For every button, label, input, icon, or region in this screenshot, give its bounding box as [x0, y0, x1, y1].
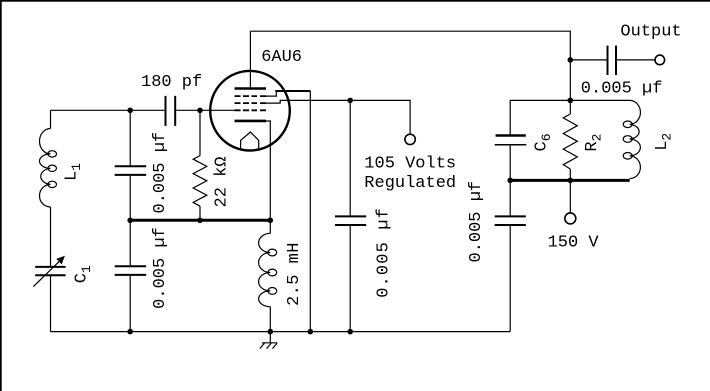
tube cathode bar [235, 120, 267, 123]
resistor bottom lead [199, 206, 201, 220]
node junction output tap [568, 57, 574, 63]
wire bottom rail [51, 331, 511, 333]
resistor R2 lead [569, 100, 571, 114]
svg-text:180 pf: 180 pf [141, 73, 202, 92]
node junction [507, 178, 513, 184]
resistor 22 kOhm [193, 156, 207, 207]
node junction [347, 329, 353, 335]
wire lower cap x=510 [509, 180, 511, 215]
arrow of C1 [33, 259, 61, 286]
inductor 2.5 mH [259, 233, 271, 306]
wire plate top rail [250, 31, 570, 60]
svg-text:2.5 mH: 2.5 mH [285, 242, 304, 306]
wire suppressor net (row1) [266, 91, 276, 96]
svg-text:105 Volts: 105 Volts [364, 155, 456, 174]
node junction thick rail / choke [268, 218, 274, 224]
capacitor 0.005uf lower-left [115, 266, 147, 275]
node junction grid wire x=200 [197, 108, 203, 114]
svg-text:0.005 µf: 0.005 µf [151, 227, 170, 309]
wire output to terminal [617, 59, 655, 61]
node junction screen cap [347, 98, 353, 104]
terminal 105V [405, 134, 415, 144]
wire choke bottom lead [269, 307, 271, 332]
wire grid input y=110 [51, 109, 238, 111]
inductor L2 [630, 100, 641, 178]
svg-text:Regulated: Regulated [364, 174, 456, 193]
tube 6AU6 envelope U1 [210, 71, 290, 151]
node junction [268, 329, 274, 335]
node junction [127, 108, 133, 114]
capacitor 0.005uf screen [335, 216, 366, 225]
wire C1 bottom [50, 276, 52, 332]
tube grid row 2 [235, 102, 267, 104]
svg-text:22 kΩ: 22 kΩ [213, 156, 232, 207]
tube heater [241, 132, 259, 150]
svg-text:0.005 µf: 0.005 µf [151, 132, 170, 214]
border left [0, 0, 2, 391]
tube grid row 1 [235, 95, 267, 97]
inductor L1 [39, 129, 50, 208]
node junction [197, 218, 203, 224]
wire to bottom rail [129, 276, 131, 332]
wire cap branch x=130 upper [129, 110, 131, 165]
wire tank top rail [510, 100, 629, 134]
wire cap to bottom rail [509, 226, 511, 332]
svg-text:Output: Output [620, 23, 681, 42]
wire L1 to C1 [50, 207, 52, 266]
capacitor 0.005uf plate-decouple [495, 216, 526, 225]
resistor R2 bottom lead [569, 169, 571, 180]
ground [260, 332, 277, 349]
svg-text:0.005 µf: 0.005 µf [467, 181, 486, 263]
wire tank bottom rail thick [509, 179, 630, 182]
wire plate lead up [249, 31, 251, 88]
wire L1 top lead [50, 110, 52, 128]
wire screen cap bottom [349, 226, 351, 332]
node junction [127, 218, 133, 224]
resistor 22k lead [199, 110, 201, 155]
wire output [570, 59, 606, 61]
tube grid row 3 [235, 109, 267, 111]
wire choke top lead [269, 220, 271, 233]
wire to 150V terminal [569, 180, 571, 212]
variable capacitor C1 [35, 267, 65, 275]
wire screen cap branch [349, 100, 351, 215]
terminal 150V [565, 213, 576, 224]
node junction [127, 329, 133, 335]
wire C6 bottom [509, 146, 511, 181]
wire screen net (row2) [266, 100, 410, 133]
wire cathode lead [266, 121, 270, 220]
capacitor 0.005uf output [608, 46, 617, 75]
wire output bus down [569, 60, 571, 101]
capacitor C6 [496, 134, 526, 137]
wire lower cap branch [129, 220, 131, 265]
node junction [568, 178, 574, 184]
svg-text:0.005 µf: 0.005 µf [375, 207, 394, 298]
svg-text:0.005 µf: 0.005 µf [581, 80, 663, 99]
node junction [308, 329, 314, 335]
resistor R2 [563, 114, 577, 169]
tube plate bar [235, 87, 267, 90]
border top [0, 0, 710, 2]
wire thick cathode rail [129, 219, 271, 222]
svg-text:6AU6: 6AU6 [261, 48, 302, 67]
wire cap to thick rail [129, 176, 131, 221]
svg-text:150 V: 150 V [548, 233, 600, 252]
terminal Output [655, 55, 665, 65]
node junction tank top [568, 98, 574, 104]
capacitor 0.005uf upper-left [115, 166, 147, 175]
capacitor 180pf [166, 96, 176, 126]
